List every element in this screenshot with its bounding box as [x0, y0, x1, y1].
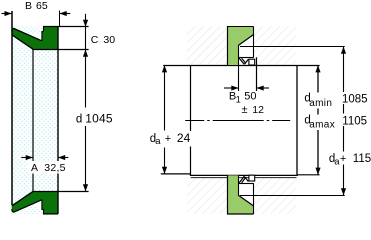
svg-text:1: 1: [236, 94, 241, 104]
svg-text:12: 12: [252, 104, 264, 116]
svg-text:+: +: [340, 153, 346, 165]
svg-text:B: B: [25, 0, 32, 12]
svg-text:65: 65: [36, 0, 48, 12]
svg-text:+: +: [165, 133, 171, 145]
svg-text:32,5: 32,5: [44, 162, 66, 174]
svg-text:d: d: [76, 114, 82, 126]
svg-text:1045: 1045: [85, 112, 113, 126]
svg-text:115: 115: [353, 153, 371, 165]
svg-text:30: 30: [103, 34, 115, 46]
svg-text:a: a: [155, 136, 161, 147]
svg-text:24: 24: [177, 131, 191, 145]
svg-text:1105: 1105: [342, 115, 367, 127]
svg-text:A: A: [31, 162, 38, 174]
svg-text:1085: 1085: [342, 93, 368, 105]
svg-text:C: C: [91, 34, 99, 46]
svg-text:amax: amax: [309, 120, 335, 131]
svg-text:±: ±: [242, 104, 248, 116]
svg-text:50: 50: [244, 91, 256, 103]
svg-text:amin: amin: [309, 98, 332, 109]
